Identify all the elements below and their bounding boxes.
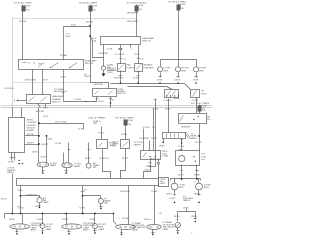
- svg-text:SWITCH: SWITCH: [85, 63, 94, 65]
- wire DS out2: [45, 104, 47, 108]
- TB right stub 1: [25, 135, 39, 137]
- wire diagonal to dimmer feed: [91, 37, 104, 58]
- svg-text:18 BK/WT: 18 BK/WT: [181, 126, 191, 128]
- fuse F3: [136, 5, 138, 37]
- svg-text:S233: S233: [144, 169, 150, 171]
- O4 label: [163, 221, 177, 231]
- wire splice branch: [46, 136, 48, 163]
- bus dots: [11, 213, 13, 215]
- wire B1 to flasher1: [120, 45, 122, 64]
- right branch end dot: [195, 221, 197, 223]
- connector tick: [120, 58, 123, 60]
- junction dot: [89, 25, 91, 27]
- svg-text:18 WT/TN: 18 WT/TN: [114, 77, 124, 79]
- wire B1 mid: [130, 45, 132, 48]
- junction dot 2: [38, 143, 40, 145]
- connector tick: [62, 92, 65, 94]
- svg-text:17 BK: 17 BK: [134, 54, 140, 56]
- svg-text:18 BK: 18 BK: [36, 219, 42, 221]
- headlamp switch box HS: [19, 60, 84, 70]
- svg-text:17 OR/RD: 17 OR/RD: [115, 54, 125, 56]
- svg-text:HOT AT ALL TIMES: HOT AT ALL TIMES: [168, 1, 187, 4]
- wire HS out3: [63, 70, 65, 102]
- front lamp oval O2: [62, 224, 82, 229]
- svg-text:HARN: HARN: [74, 165, 81, 168]
- wire to wide box: [143, 129, 145, 151]
- svg-text:10A: 10A: [93, 122, 97, 125]
- SB3 hatch right: [185, 133, 191, 139]
- rail corners: [171, 179, 201, 184]
- oval connector O-B: [62, 163, 72, 168]
- wire S217 horizontal: [39, 123, 84, 125]
- SB1 feed wire: [101, 127, 103, 140]
- svg-text:18 BK: 18 BK: [89, 219, 95, 221]
- svg-text:ASSY: ASSY: [83, 229, 89, 232]
- WB label right: [162, 151, 169, 157]
- svg-text:CONN: CONN: [162, 156, 169, 158]
- fuse F6 value label: [202, 105, 208, 111]
- fuse F5 value label: [127, 120, 133, 126]
- C2 ground: [177, 73, 180, 78]
- park lamp circle C1: [158, 67, 163, 72]
- SB3 dots: [181, 139, 182, 140]
- SB2 name label: [113, 141, 119, 147]
- svg-text:18 RD: 18 RD: [121, 134, 128, 136]
- wire down left of relay: [155, 99, 157, 167]
- svg-text:18 BK/RD: 18 BK/RD: [94, 84, 104, 86]
- svg-text:S216 BK: S216 BK: [36, 111, 45, 113]
- SB3 hatch label: [191, 133, 198, 139]
- wire BB out1: [20, 186, 22, 214]
- wire corner to left: [149, 166, 156, 168]
- svg-text:B-2A: B-2A: [66, 35, 71, 38]
- LC3 ground: [42, 229, 44, 233]
- turn signal flasher box FL1: [118, 64, 126, 72]
- LC2 label: [104, 199, 110, 205]
- svg-text:SWITCH: SWITCH: [117, 93, 126, 95]
- BB out1 connector: [19, 190, 23, 192]
- wire bus end to O3: [114, 214, 117, 225]
- svg-text:LAMP: LAMP: [43, 201, 49, 204]
- svg-text:18 PL: 18 PL: [78, 129, 84, 131]
- bus A label: [84, 74, 91, 78]
- park lamp circle C2: [176, 67, 181, 72]
- svg-text:SIG: SIG: [107, 67, 111, 69]
- svg-text:MKR: MKR: [181, 70, 186, 72]
- svg-text:18 BK: 18 BK: [192, 100, 198, 102]
- wire to headlamp switch: [63, 27, 65, 60]
- FL2 contact: [137, 65, 141, 70]
- svg-text:LAMP: LAMP: [46, 228, 52, 231]
- connector tick: [154, 99, 157, 101]
- wire FL1 out: [120, 71, 122, 84]
- svg-text:HOT IN RUN OR ACC: HOT IN RUN OR ACC: [127, 1, 148, 4]
- HS internal contacts: [23, 63, 78, 69]
- B2 right label: [117, 89, 126, 95]
- svg-text:LAMP: LAMP: [160, 182, 166, 185]
- svg-text:18 BK: 18 BK: [169, 198, 175, 200]
- svg-text:18 BK: 18 BK: [62, 219, 68, 221]
- ground dot: [65, 172, 67, 174]
- left wire dot: [162, 141, 164, 143]
- svg-text:HDLP: HDLP: [201, 93, 207, 95]
- TLB out wire 1: [181, 165, 183, 179]
- oval connector O-A: [37, 162, 48, 167]
- svg-text:BK/TN: BK/TN: [27, 134, 34, 136]
- svg-text:MKR: MKR: [204, 187, 209, 189]
- wire bus to O2: [66, 214, 68, 225]
- TLB coil circle: [179, 156, 185, 162]
- svg-text:18 BK: 18 BK: [159, 145, 165, 147]
- SC1 label: [93, 162, 100, 169]
- svg-text:CLG: CLG: [66, 34, 71, 36]
- svg-text:RLY: RLY: [207, 119, 212, 121]
- SB2 right label: [134, 142, 144, 146]
- wire BB out2: [82, 186, 84, 214]
- fuse F6: [199, 105, 201, 114]
- FL1 contact: [119, 65, 124, 70]
- RB out dot: [198, 135, 200, 137]
- ground dot: [42, 172, 44, 174]
- wire B1 to flasher2: [138, 45, 140, 64]
- svg-text:LAMPS: LAMPS: [183, 199, 191, 202]
- LC1 ground: [39, 203, 41, 207]
- O3 mid label: [132, 222, 146, 232]
- wire lamp rail top: [161, 59, 197, 61]
- svg-text:INSTR: INSTR: [26, 119, 33, 121]
- fuse F2 value label: [92, 5, 98, 11]
- svg-text:CLG A-5: CLG A-5: [74, 98, 83, 101]
- splice inner: [177, 224, 180, 227]
- junction dot: [82, 195, 84, 197]
- svg-text:MKR: MKR: [199, 70, 204, 72]
- wide box WB: [141, 151, 161, 160]
- svg-text:BK/YL: BK/YL: [167, 194, 174, 196]
- right bottom tee wire: [186, 209, 188, 212]
- splice symbol diamond: [175, 222, 180, 227]
- SB3 inner dashes: [167, 134, 179, 138]
- headlamp connector box HB1: [165, 90, 179, 98]
- svg-text:18 BK: 18 BK: [79, 207, 85, 209]
- svg-text:18 PNK: 18 PNK: [86, 21, 94, 23]
- ML2 ground dot: [198, 202, 200, 204]
- ground stub and arrow: [103, 71, 105, 74]
- O-B label: [74, 164, 82, 168]
- HB1 bottom dots: [166, 95, 167, 96]
- svg-text:18 BK: 18 BK: [183, 207, 189, 209]
- svg-text:IND: IND: [104, 203, 108, 205]
- connector tick: [137, 58, 141, 60]
- O-B feed wire: [68, 143, 70, 163]
- svg-text:18 BK: 18 BK: [8, 161, 14, 163]
- wire BB out3: [128, 186, 130, 225]
- junction dot S216: [38, 135, 40, 137]
- svg-text:C200 18 GY S220: C200 18 GY S220: [88, 118, 106, 120]
- svg-text:BK/WT: BK/WT: [27, 142, 34, 144]
- relay box RB: [179, 114, 207, 124]
- svg-text:TO: TO: [152, 127, 155, 129]
- svg-text:18 ORG: 18 ORG: [19, 21, 27, 23]
- svg-text:HEADLAMP: HEADLAMP: [85, 59, 97, 62]
- svg-text:CIRCUIT: CIRCUIT: [26, 128, 35, 130]
- wire W2 lower: [91, 27, 109, 89]
- RB contact: [180, 116, 184, 122]
- wire BB out4: [154, 186, 156, 225]
- svg-text:LT GN: LT GN: [178, 146, 185, 148]
- bus B low beam wire: [128, 87, 173, 90]
- svg-text:18 RD/WHT: 18 RD/WHT: [127, 21, 139, 23]
- svg-text:18 BK: 18 BK: [32, 151, 38, 153]
- WB out wire: [144, 159, 151, 179]
- O1 label: [31, 223, 44, 232]
- junction dot: [89, 35, 91, 37]
- mid label between markers: [183, 196, 194, 202]
- connector dot: [85, 101, 86, 102]
- svg-text:18 OR: 18 OR: [195, 142, 202, 144]
- TLB out wire 2: [196, 165, 199, 179]
- svg-text:HOT AT ALL TIMES: HOT AT ALL TIMES: [79, 1, 98, 4]
- svg-text:IND: IND: [93, 167, 97, 169]
- ground bus bottom: [5, 214, 114, 219]
- svg-text:LT HDLP: LT HDLP: [163, 100, 172, 102]
- WB out tick: [149, 162, 152, 164]
- connector tick: [137, 75, 140, 77]
- small box SB1: [97, 140, 108, 149]
- dot: [46, 135, 48, 137]
- ground ring terminal: [101, 66, 105, 70]
- SB1 inner mark: [99, 143, 103, 147]
- svg-text:HEADLAMP: HEADLAMP: [52, 95, 64, 98]
- C2 ground dot: [177, 82, 179, 84]
- wire W1 orange feed: [22, 19, 24, 60]
- C3 ground: [195, 73, 198, 78]
- turn hazard switch box B2: [93, 89, 117, 97]
- C3 ground dot: [195, 82, 197, 84]
- svg-text:18 BK: 18 BK: [152, 109, 158, 111]
- svg-text:S217 18 BK: S217 18 BK: [55, 121, 67, 123]
- fuse F1: [23, 5, 25, 19]
- ML2 ground: [198, 190, 201, 196]
- wire HS out3 horizontal: [64, 101, 97, 102]
- junction dot: [38, 122, 40, 124]
- svg-text:RT FRT: RT FRT: [199, 68, 207, 70]
- connector tick: [119, 75, 123, 77]
- wire DS out diag: [38, 104, 41, 108]
- front lamp oval O1: [10, 224, 30, 229]
- lamp LC2: [98, 198, 103, 203]
- indicator lamp SC1: [86, 163, 91, 168]
- svg-text:S234: S234: [35, 206, 41, 208]
- headlamp switch box B1 upper right: [101, 37, 141, 45]
- SB1 feed ticks: [100, 117, 103, 119]
- fuse F3 value label: [138, 5, 144, 11]
- svg-text:18 BK/GN: 18 BK/GN: [120, 191, 130, 193]
- svg-text:18 BK/TN: 18 BK/TN: [27, 194, 37, 196]
- svg-text:LT FRT: LT FRT: [164, 68, 172, 70]
- left arrow connector: [21, 163, 24, 165]
- WB contact: [143, 153, 147, 158]
- wire hb1 down: [168, 99, 170, 133]
- svg-text:RD/YL: RD/YL: [84, 76, 91, 78]
- O-B feed wire2: [63, 153, 65, 164]
- svg-text:18 BK: 18 BK: [194, 174, 200, 176]
- DS internal contacts: [29, 97, 47, 102]
- svg-text:FLASHER: FLASHER: [144, 66, 154, 69]
- ground labels: [107, 66, 117, 74]
- wire from switch box bottom to ground: [103, 45, 105, 67]
- SB3 out wire mid: [181, 139, 183, 151]
- left branch lower: [177, 228, 180, 233]
- LC2 ground: [100, 204, 103, 208]
- TB right stub 2: [25, 144, 39, 146]
- LC3 ground dot: [42, 232, 44, 234]
- DS left wire: [17, 100, 27, 102]
- BB out2 connector: [81, 191, 85, 193]
- svg-text:7.5A: 7.5A: [25, 9, 30, 12]
- svg-text:18 VT: 18 VT: [43, 107, 49, 109]
- left branch end dot: [177, 232, 179, 234]
- wire FL2 out: [138, 71, 140, 84]
- svg-text:BK/YL: BK/YL: [192, 216, 199, 218]
- ML1 ground: [174, 190, 176, 196]
- svg-text:18 VT: 18 VT: [43, 80, 49, 82]
- svg-text:S210: S210: [71, 24, 77, 26]
- svg-text:18 RD: 18 RD: [85, 158, 92, 160]
- svg-text:18 BK: 18 BK: [151, 138, 157, 140]
- LC4 ground: [94, 229, 97, 233]
- svg-text:⌐+18 A: ⌐+18 A: [106, 48, 113, 51]
- svg-text:HEADLAMP: HEADLAMP: [142, 37, 154, 40]
- svg-text:18 BK: 18 BK: [175, 79, 181, 81]
- svg-text:18 GY/OR: 18 GY/OR: [4, 88, 14, 90]
- TB bottom stubs: [12, 153, 15, 161]
- svg-text:18 WT: 18 WT: [122, 158, 129, 160]
- fuse F1 value label: [25, 6, 31, 12]
- rear lamp oval O4: [147, 224, 161, 229]
- svg-text:18 BK: 18 BK: [9, 219, 15, 221]
- svg-text:FLSHR: FLSHR: [127, 67, 134, 69]
- svg-text:ASSY: ASSY: [31, 229, 37, 232]
- section guide line mid: [13, 82, 91, 84]
- wire cluster feed 1: [38, 108, 40, 163]
- headlamp connector box HB2: [191, 90, 200, 98]
- svg-text:HARN: HARN: [191, 137, 198, 140]
- C1 ground dot: [159, 82, 161, 84]
- wire HB2 to relay: [196, 97, 198, 114]
- HB1 ticks below: [174, 98, 180, 100]
- tee horizontal: [178, 211, 196, 213]
- svg-text:RT RR: RT RR: [204, 184, 211, 186]
- park lamp circle C3: [194, 67, 199, 72]
- svg-text:BK/WT: BK/WT: [42, 144, 49, 146]
- svg-text:18 GN: 18 GN: [122, 218, 129, 220]
- svg-text:PRINTED: PRINTED: [26, 125, 36, 127]
- svg-text:TURN: TURN: [107, 65, 113, 67]
- O1 ground dot: [16, 233, 18, 235]
- wire S217 drop: [83, 124, 85, 130]
- svg-text:HOT AT ALL TIMES: HOT AT ALL TIMES: [13, 1, 32, 4]
- B2 internal contacts: [95, 91, 113, 95]
- wire HS out2: [42, 70, 44, 95]
- B1 bottom dots: [119, 48, 120, 49]
- svg-text:LAMP: LAMP: [98, 228, 104, 231]
- rear lamp oval O3: [116, 224, 136, 229]
- svg-text:CLUSTER: CLUSTER: [26, 122, 36, 124]
- TB top wires: [13, 108, 22, 118]
- fuse F4: [178, 4, 180, 60]
- SB2 out wire: [121, 149, 126, 179]
- svg-text:18 BK: 18 BK: [178, 174, 184, 176]
- marker lamp ML1: [171, 183, 178, 190]
- instrument cluster tall box TB: [9, 118, 25, 153]
- svg-text:BK/YL: BK/YL: [194, 194, 201, 196]
- wire branch at S210: [64, 26, 91, 28]
- note box NB: [159, 178, 169, 187]
- svg-text:18 BK/OR: 18 BK/OR: [99, 158, 109, 160]
- label left of wire: [54, 89, 64, 93]
- tee left branch: [177, 212, 179, 222]
- svg-text:LAMP: LAMP: [132, 228, 138, 231]
- section guide line lower2: [1, 107, 213, 109]
- svg-text:18 GY: 18 GY: [98, 101, 105, 103]
- B2 out connector ticks: [96, 98, 113, 100]
- svg-text:RLY: RLY: [201, 159, 206, 161]
- WB dots: [149, 156, 150, 157]
- svg-text:DIMMER: DIMMER: [52, 99, 61, 101]
- svg-text:SWITCH: SWITCH: [142, 41, 151, 43]
- wire bus to LC3: [42, 214, 44, 224]
- B2 out stubs: [97, 97, 111, 108]
- RB out wire: [199, 124, 201, 151]
- lamp LC1: [37, 198, 42, 203]
- svg-text:SWITCH: SWITCH: [52, 102, 61, 104]
- O2 label: [83, 223, 96, 232]
- svg-text:18 PK: 18 PK: [60, 77, 66, 79]
- svg-text:18 BK/RD: 18 BK/RD: [98, 53, 108, 55]
- svg-text:HAZARD: HAZARD: [144, 64, 153, 67]
- LC4 ground dot: [94, 232, 96, 234]
- svg-text:18 BK: 18 BK: [157, 79, 163, 81]
- junction dot: [20, 195, 22, 197]
- connector strip box SB3: [163, 133, 186, 139]
- section guide line top: [13, 19, 137, 107]
- svg-text:18 RD/ORG: 18 RD/ORG: [25, 80, 37, 82]
- svg-text:LT RR: LT RR: [179, 184, 185, 186]
- wire bus to LC4: [94, 214, 96, 224]
- wire bus to O1: [22, 214, 24, 225]
- rail dots: [181, 178, 183, 180]
- svg-text:G100: G100: [107, 72, 113, 74]
- fuse F2: [90, 5, 92, 27]
- tick above TLB: [179, 149, 183, 151]
- stop lamp switch box SB2: [121, 140, 130, 149]
- B2 stub2 dot: [110, 102, 112, 104]
- svg-text:HD: HD: [207, 116, 211, 118]
- branch to lamp LC1: [21, 196, 40, 198]
- hazard flasher box FL2: [135, 64, 143, 72]
- dimmer switch box DS: [27, 95, 51, 104]
- svg-text:RT FRT: RT FRT: [181, 68, 189, 70]
- svg-text:MKR: MKR: [164, 70, 169, 72]
- big bottom box BB: [17, 179, 159, 186]
- svg-text:18 BK: 18 BK: [165, 109, 171, 111]
- fuse F5: [125, 120, 127, 140]
- wire right: [153, 109, 155, 151]
- svg-text:CLG: CLG: [92, 38, 97, 40]
- SC1 feed wire: [88, 143, 90, 164]
- svg-text:18 OR: 18 OR: [1, 199, 8, 201]
- junction dot: [65, 213, 67, 215]
